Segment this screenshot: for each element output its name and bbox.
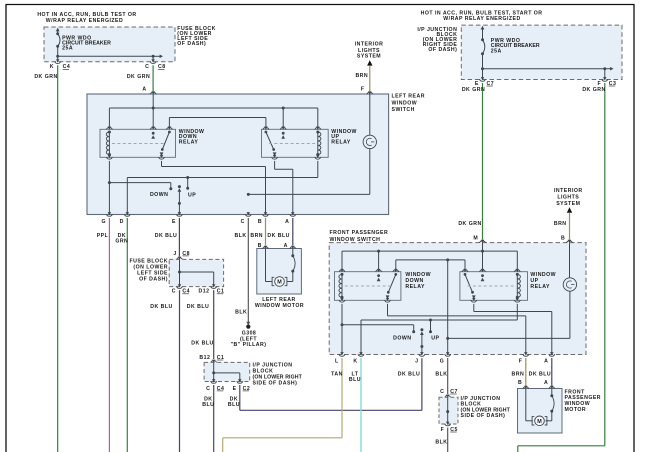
JB1 label bbox=[417, 27, 457, 53]
JB3 bottom cup bbox=[441, 422, 458, 433]
wire bus1 to coil4 bbox=[516, 251, 518, 272]
svg-text:DK BLU: DK BLU bbox=[150, 304, 172, 310]
up contact FP bbox=[429, 320, 440, 341]
svg-text:B: B bbox=[518, 380, 522, 386]
svg-text:C: C bbox=[440, 389, 444, 395]
wire PPL pin G bbox=[97, 218, 110, 452]
wire DK BLU pin E bbox=[155, 218, 180, 256]
svg-text:OF DASH): OF DASH) bbox=[139, 277, 168, 283]
up contact LR bbox=[186, 178, 196, 199]
left rear window motor label bbox=[255, 297, 304, 309]
wire relay1 contact to pin B bbox=[162, 161, 266, 215]
relay3 NO contact stub bbox=[377, 274, 381, 281]
window up relay label LR bbox=[331, 129, 357, 145]
svg-text:BRN: BRN bbox=[250, 233, 263, 239]
motor2 breaker arc bbox=[546, 389, 555, 421]
relay3 link bbox=[345, 285, 391, 287]
JB2 label bbox=[253, 363, 303, 387]
wire BRN to F bbox=[355, 65, 369, 92]
relay1 link bbox=[112, 143, 166, 145]
svg-text:C: C bbox=[145, 64, 149, 70]
relay2 bottom cups bbox=[272, 155, 321, 159]
svg-text:RELAY: RELAY bbox=[331, 139, 351, 145]
wire DK GRN E-C7 to M bbox=[458, 83, 485, 242]
motor1 breaker arc bbox=[287, 249, 296, 282]
svg-text:DK BLU: DK BLU bbox=[187, 304, 209, 310]
relay2 top cups bbox=[263, 127, 321, 130]
pin E C7 bbox=[475, 77, 494, 87]
switch pole FP bbox=[420, 328, 424, 354]
relay2 NO contact stub bbox=[281, 132, 285, 139]
JB3 internal wire bbox=[446, 397, 449, 424]
svg-text:INTERIOR: INTERIOR bbox=[355, 41, 384, 47]
relay3 coil bbox=[339, 273, 344, 299]
wire BLK pin C bbox=[235, 218, 249, 323]
bus1 LR power bbox=[109, 107, 317, 110]
wire TAN pin L bbox=[223, 358, 343, 452]
wire coil3 to pin L bbox=[341, 304, 344, 355]
svg-text:BLK: BLK bbox=[435, 371, 447, 377]
svg-text:L: L bbox=[335, 358, 339, 364]
svg-text:DK GRN: DK GRN bbox=[34, 74, 57, 80]
wire BRN pin B bbox=[250, 218, 265, 249]
svg-text:M: M bbox=[277, 280, 282, 286]
bus1 FP power bbox=[342, 250, 517, 253]
svg-text:J: J bbox=[415, 358, 418, 364]
svg-text:UP: UP bbox=[431, 335, 439, 341]
LR pin letters bbox=[101, 219, 289, 225]
svg-text:DK BLU: DK BLU bbox=[267, 233, 289, 239]
wire relay4 contact to pin A fp bbox=[474, 304, 552, 355]
svg-text:A: A bbox=[544, 358, 548, 364]
pin C C8 bbox=[145, 59, 165, 70]
bus D FP bbox=[361, 304, 517, 355]
svg-text:C: C bbox=[172, 289, 176, 295]
lamp return line FP bbox=[448, 337, 570, 339]
pin F C3 bbox=[597, 77, 616, 87]
wire coil1 to pin G bbox=[108, 161, 111, 215]
wire bus1 to coil3 bbox=[341, 251, 343, 272]
wire FB1 feed bus bbox=[56, 55, 163, 62]
switch pole LR bbox=[178, 185, 182, 214]
svg-text:SYSTEM: SYSTEM bbox=[556, 201, 580, 207]
bus2 FP commons bbox=[396, 258, 465, 271]
svg-text:WINDOW MOTOR: WINDOW MOTOR bbox=[255, 303, 304, 309]
wire M to relay4 mid bbox=[482, 243, 484, 272]
wire DK BLU E-C2 to J bbox=[228, 358, 422, 410]
window down relay box LR bbox=[100, 129, 176, 157]
relay4 link bbox=[468, 285, 515, 287]
relay4 switch arm bbox=[464, 273, 476, 299]
svg-text:D: D bbox=[120, 219, 124, 225]
svg-text:MOTOR: MOTOR bbox=[565, 407, 587, 413]
svg-text:RELAY: RELAY bbox=[179, 139, 199, 145]
svg-text:BLK: BLK bbox=[235, 233, 247, 239]
FB2 bottom cups bbox=[177, 284, 217, 288]
LR bottom cups bbox=[106, 212, 295, 216]
wire DK GRN F-C3 down bbox=[518, 83, 606, 452]
svg-text:GRN: GRN bbox=[115, 239, 128, 245]
relay3 bottom cups bbox=[339, 298, 391, 302]
down contact LR bbox=[109, 183, 172, 199]
svg-text:DK BLU: DK BLU bbox=[191, 341, 213, 347]
left rear window switch label bbox=[392, 93, 425, 113]
relay1 top cups bbox=[106, 127, 172, 130]
window up relay box LR bbox=[262, 129, 329, 157]
svg-text:G: G bbox=[101, 219, 106, 225]
down contact FP bbox=[342, 325, 415, 342]
svg-text:OF DASH): OF DASH) bbox=[177, 41, 206, 47]
pin K C4 bbox=[50, 59, 70, 70]
pin C C7 bbox=[440, 389, 458, 398]
pin J C8 bbox=[173, 251, 190, 260]
JB3 label bbox=[461, 396, 511, 419]
JB2 internal wires bbox=[212, 362, 240, 381]
svg-text:DK GRN: DK GRN bbox=[458, 221, 481, 227]
relay4 coil bbox=[516, 273, 521, 299]
junction block JB3 box bbox=[439, 397, 458, 424]
FB2 label bbox=[129, 259, 168, 283]
left rear window motor box bbox=[257, 249, 302, 295]
fuse block FB1 box bbox=[44, 27, 175, 62]
relay1 coil bbox=[106, 131, 111, 157]
svg-text:LIGHTS: LIGHTS bbox=[557, 194, 579, 200]
circuit breaker CB1 bbox=[56, 28, 60, 62]
relay3 top cups bbox=[339, 269, 399, 272]
wire JB1 feed bus bbox=[481, 67, 614, 80]
svg-text:WINDOW SWITCH: WINDOW SWITCH bbox=[330, 237, 381, 243]
junction block JB2 box bbox=[204, 362, 250, 381]
svg-text:A: A bbox=[142, 86, 146, 92]
svg-text:D12: D12 bbox=[199, 289, 210, 295]
FP pin letters bbox=[335, 358, 548, 364]
svg-text:E: E bbox=[233, 386, 237, 392]
motor1 M symbol bbox=[272, 277, 287, 287]
relay4 NO contact stub bbox=[481, 274, 485, 281]
lamp LR bbox=[363, 94, 376, 194]
pin A top bbox=[150, 91, 156, 94]
FB2 internal wires bbox=[178, 259, 214, 286]
svg-text:E: E bbox=[172, 219, 176, 225]
lamp FP bbox=[563, 243, 576, 339]
svg-text:BRN: BRN bbox=[355, 73, 368, 79]
ground G308 bbox=[231, 322, 267, 348]
window up relay label FP bbox=[530, 272, 556, 290]
svg-text:BLU: BLU bbox=[228, 402, 240, 408]
interior lights system label right bbox=[554, 188, 583, 207]
JB2 bottom cups bbox=[211, 379, 243, 383]
wire DK BLU C1 to B12 bbox=[187, 290, 214, 359]
svg-text:"B" PILLAR): "B" PILLAR) bbox=[231, 342, 267, 348]
svg-text:LEFT REAR: LEFT REAR bbox=[392, 93, 425, 99]
wire pin G vertical bbox=[446, 260, 449, 355]
svg-text:K: K bbox=[50, 64, 54, 70]
JB2 pin labels bbox=[206, 386, 250, 392]
relay2 coil bbox=[316, 131, 321, 157]
svg-text:SIDE OF DASH): SIDE OF DASH) bbox=[253, 381, 298, 387]
svg-text:J: J bbox=[173, 251, 176, 257]
svg-text:BLU: BLU bbox=[202, 402, 214, 408]
FB1 label bbox=[177, 26, 216, 47]
front passenger window switch box bbox=[329, 243, 586, 355]
CB2 label bbox=[491, 38, 540, 54]
svg-text:DOWN: DOWN bbox=[150, 192, 168, 198]
svg-text:SWITCH: SWITCH bbox=[392, 107, 415, 113]
svg-text:C: C bbox=[206, 386, 210, 392]
arrow to interior lights right bbox=[567, 207, 572, 212]
wire DK GRN K-C4 down bbox=[34, 65, 57, 452]
relay1 NO contact stub bbox=[151, 132, 155, 139]
svg-text:A: A bbox=[285, 219, 289, 225]
wire bus1 to coil2 bbox=[317, 108, 319, 129]
svg-text:B: B bbox=[258, 219, 262, 225]
relay2 link bbox=[269, 143, 315, 145]
svg-text:DK GRN: DK GRN bbox=[462, 87, 485, 93]
svg-text:F: F bbox=[519, 358, 523, 364]
window up relay box FP bbox=[460, 272, 528, 301]
svg-text:TAN: TAN bbox=[331, 371, 343, 377]
relay4 bottom cups bbox=[471, 298, 521, 302]
wire DK GRN pin D bbox=[115, 218, 128, 452]
bus D LR bbox=[127, 161, 317, 215]
svg-text:RELAY: RELAY bbox=[530, 284, 550, 290]
svg-text:DK BLU: DK BLU bbox=[155, 233, 177, 239]
relay3 switch arm bbox=[386, 273, 398, 299]
front passenger window switch label bbox=[330, 230, 389, 243]
svg-text:UP: UP bbox=[188, 192, 196, 198]
svg-text:DK BLU: DK BLU bbox=[398, 371, 420, 377]
svg-text:25A: 25A bbox=[62, 45, 73, 51]
svg-text:DK GRN: DK GRN bbox=[582, 87, 605, 93]
wire BLK pin G bbox=[435, 358, 447, 394]
svg-text:G: G bbox=[440, 358, 445, 364]
relay4 top cups bbox=[462, 269, 520, 272]
window down relay label FP bbox=[405, 272, 431, 290]
wire DK GRN C8 to A bbox=[127, 65, 153, 92]
window down relay label LR bbox=[179, 129, 205, 145]
svg-text:K: K bbox=[353, 358, 357, 364]
svg-text:C: C bbox=[241, 219, 245, 225]
svg-text:E: E bbox=[475, 81, 479, 87]
svg-text:A: A bbox=[544, 380, 548, 386]
interior lights system label left bbox=[355, 41, 384, 59]
svg-text:W/RAP RELAY ENERGIZED: W/RAP RELAY ENERGIZED bbox=[443, 16, 520, 22]
wire bus1 to relay3 mid bbox=[378, 251, 380, 272]
FB2 pin labels bbox=[172, 289, 225, 295]
motor2 M symbol bbox=[532, 416, 547, 426]
wire relay2 contact to pin A bbox=[275, 161, 293, 215]
wire DK BLU JB2-C4 down bbox=[202, 385, 214, 452]
svg-text:DK GRN: DK GRN bbox=[127, 74, 150, 80]
wire DK BLU pin A fp bbox=[529, 358, 552, 386]
wire LT BLU pin K bbox=[349, 358, 361, 452]
svg-text:M: M bbox=[537, 419, 542, 425]
svg-text:B: B bbox=[561, 236, 565, 242]
motor2 cups bbox=[523, 386, 555, 389]
motor1 left lead bbox=[266, 249, 273, 282]
wire DK BLU pin J label bbox=[398, 371, 420, 377]
circuit breaker CB2 bbox=[481, 26, 485, 80]
window down relay box FP bbox=[335, 272, 401, 301]
svg-text:F: F bbox=[361, 87, 365, 93]
left rear window switch box bbox=[87, 94, 389, 215]
lamp return line LR bbox=[247, 193, 370, 196]
motor2 left lead bbox=[526, 389, 533, 421]
pin M top bbox=[480, 240, 486, 243]
bus2 LR commons bbox=[169, 118, 266, 130]
svg-text:SIDE OF DASH): SIDE OF DASH) bbox=[461, 413, 506, 419]
svg-text:PPL: PPL bbox=[97, 233, 109, 239]
wire relay3 contact to pin F bbox=[388, 304, 526, 355]
svg-text:M: M bbox=[473, 236, 478, 242]
svg-text:FRONT PASSENGER: FRONT PASSENGER bbox=[330, 230, 389, 236]
arrow to interior lights left bbox=[367, 60, 372, 65]
junction block JB1 box bbox=[461, 25, 622, 79]
relay1 switch arm bbox=[160, 131, 171, 156]
header text hot in acc left bbox=[37, 12, 136, 24]
fuse block FB2 box bbox=[169, 259, 223, 286]
wire bus1 to relay2 mid bbox=[282, 108, 284, 129]
pin B top fp bbox=[567, 240, 573, 243]
relay1 bottom cups bbox=[106, 155, 164, 159]
svg-text:INTERIOR: INTERIOR bbox=[554, 188, 583, 194]
svg-text:25A: 25A bbox=[491, 48, 502, 54]
svg-text:BRN: BRN bbox=[554, 221, 567, 227]
front passenger window motor label bbox=[565, 389, 602, 413]
svg-text:BLK: BLK bbox=[435, 439, 447, 445]
wire BLK C5 down bbox=[435, 428, 447, 452]
svg-text:WINDOW: WINDOW bbox=[392, 100, 418, 106]
svg-text:W/RAP RELAY ENERGIZED: W/RAP RELAY ENERGIZED bbox=[46, 18, 123, 24]
wire DK BLU C4 down bbox=[150, 290, 179, 452]
FP bottom cups bbox=[339, 352, 555, 356]
CB1 label bbox=[62, 35, 111, 51]
svg-text:DOWN: DOWN bbox=[393, 335, 411, 341]
svg-text:DK BLU: DK BLU bbox=[529, 371, 551, 377]
wire bus1 to coil1 bbox=[108, 108, 110, 129]
wire BRN pin F bbox=[512, 358, 526, 386]
front passenger window motor box bbox=[518, 389, 563, 434]
pin F top bbox=[367, 91, 373, 94]
svg-text:OF DASH): OF DASH) bbox=[428, 47, 457, 53]
svg-text:BLU: BLU bbox=[349, 377, 361, 383]
svg-text:F: F bbox=[441, 427, 445, 433]
svg-text:RELAY: RELAY bbox=[405, 284, 425, 290]
svg-text:BRN: BRN bbox=[512, 371, 525, 377]
svg-text:B12: B12 bbox=[199, 355, 210, 361]
header text hot in acc right bbox=[421, 11, 543, 23]
svg-text:BLK: BLK bbox=[235, 310, 247, 316]
svg-text:F: F bbox=[597, 81, 601, 87]
wire BRN to B fp bbox=[554, 213, 570, 242]
motor1 cups bbox=[263, 246, 296, 249]
wire A to relay1 mid bbox=[152, 94, 154, 129]
pin B12 C1 bbox=[199, 355, 224, 363]
svg-text:SYSTEM: SYSTEM bbox=[357, 54, 381, 60]
wire DK BLU pin A bbox=[267, 218, 292, 249]
relay2 switch arm bbox=[265, 131, 277, 156]
